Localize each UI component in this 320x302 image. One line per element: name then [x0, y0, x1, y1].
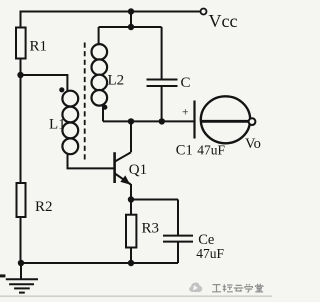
node ground junction [18, 260, 24, 266]
svg-text:Vo: Vo [245, 136, 261, 152]
watermark logo [189, 283, 202, 293]
wire mid rail [103, 120, 194, 122]
transistor Q1 base bar [113, 152, 116, 183]
capacitor C1 left plate [193, 101, 195, 139]
resistor R2 [17, 183, 26, 217]
output circle [201, 96, 250, 143]
svg-text:Vcc: Vcc [209, 11, 238, 31]
svg-text:Q1: Q1 [129, 162, 147, 178]
svg-text:C: C [181, 75, 191, 91]
power terminal Vcc [201, 9, 207, 15]
node emitter junction [128, 196, 134, 202]
node collector junction [128, 118, 134, 124]
transistor Q1 emitter diagonal [115, 174, 131, 185]
svg-text:47uF: 47uF [197, 142, 225, 157]
svg-text:L2: L2 [108, 73, 125, 89]
wire L2 bottom [102, 105, 104, 121]
inductor L2 [92, 44, 108, 105]
svg-text:R2: R2 [35, 199, 53, 215]
wire bottom rail [21, 262, 179, 264]
wire Ce branch top [177, 200, 179, 236]
capacitor Ce [163, 236, 193, 242]
watermark text 工控云学堂 (drawn strokes) [212, 284, 263, 292]
node second rail [128, 24, 134, 30]
transformer core dashed [84, 43, 86, 161]
控 [223, 284, 233, 292]
wire to L1 top [21, 75, 68, 91]
capacitor C [161, 27, 163, 79]
svg-text:R3: R3 [142, 221, 160, 237]
transistor Q1 collector wire [130, 121, 132, 152]
resistor R3 [126, 215, 136, 248]
transistor Q1 collector diagonal [115, 152, 131, 161]
inductor L1 [62, 91, 78, 155]
svg-text:R1: R1 [30, 39, 48, 55]
transistor Q1 emitter arrow [120, 175, 130, 184]
ground [6, 263, 38, 293]
堂 [255, 284, 263, 292]
wire emitter to Ce branch [131, 199, 178, 201]
工 [212, 285, 221, 292]
wire top rail [21, 11, 201, 13]
svg-text:47uF: 47uF [196, 246, 224, 261]
polarity dot L2 [102, 105, 107, 110]
wire R3 branch [130, 200, 132, 264]
wire left rail [20, 11, 22, 264]
wire Ce branch bottom [177, 242, 179, 263]
stray mark left edge [0, 274, 5, 277]
diameter line [201, 120, 250, 123]
学 [245, 284, 253, 292]
watermark separator line [0, 295, 272, 297]
wire L1 bottom to Q1 base [68, 154, 115, 169]
output terminal [249, 118, 256, 125]
node C junction [159, 118, 165, 124]
node below R1 [17, 72, 23, 78]
云 [234, 285, 244, 291]
node R3 bottom junction [128, 260, 134, 266]
node top rail [128, 8, 134, 14]
resistor R1 [16, 28, 26, 59]
svg-text:C1: C1 [176, 142, 193, 158]
polarity dot L1 [59, 87, 64, 92]
wire top rail to second rail [130, 12, 132, 28]
wire emitter down [130, 184, 132, 200]
svg-text:+: + [182, 107, 189, 119]
wire second rail [99, 27, 162, 45]
